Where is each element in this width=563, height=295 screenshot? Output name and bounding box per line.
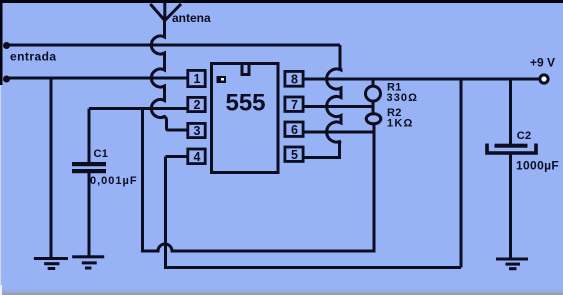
IC 555 body [212, 64, 279, 173]
wire R2 bottom vertical x=374 [373, 124, 376, 253]
svg-text:antena: antena [172, 11, 211, 25]
wire A y=251 with hop over x=165 [141, 244, 374, 251]
svg-text:3: 3 [194, 124, 201, 138]
wire C1 tap y=108.5 [89, 107, 187, 110]
wire pin7 y=106.5 [305, 105, 374, 108]
wire pin4 down x=165.5 [164, 157, 167, 268]
pin boxes left [188, 70, 205, 163]
svg-text:555: 555 [225, 90, 265, 117]
pin 7 box [285, 97, 303, 111]
ground A (x=51) [34, 257, 68, 270]
pin numbers [194, 72, 299, 164]
node dot entrada bottom [5, 77, 9, 81]
resistor R2 ellipse [366, 114, 381, 124]
wire C2 lead top x=510.5 [509, 79, 512, 144]
svg-text:5: 5 [291, 148, 298, 162]
svg-text:1KΩ: 1KΩ [387, 118, 413, 130]
ground C2 (x=511) [496, 258, 528, 271]
ground B (x=89) [72, 255, 104, 269]
svg-text:6: 6 [291, 123, 298, 137]
pin 3 box [188, 123, 205, 137]
svg-text:+9 V: +9 V [530, 56, 555, 70]
wire entrada top y=45 [5, 44, 340, 47]
pin 2 box [188, 97, 205, 111]
wire right vertical x=461 [460, 79, 463, 268]
pin 5 box [285, 147, 303, 161]
IC notch [242, 64, 249, 75]
pin 8 box [285, 71, 303, 86]
top border [0, 0, 563, 3]
svg-text:8: 8 [291, 73, 298, 87]
capacitor C1 plates [72, 162, 106, 173]
resistor R1 stub top [372, 81, 375, 87]
terminal +9V circle [540, 75, 548, 83]
svg-text:7: 7 [291, 98, 298, 112]
pin 4 box [188, 149, 205, 164]
pin 1 box [188, 70, 205, 86]
svg-text:2: 2 [194, 98, 201, 112]
svg-text:entrada: entrada [10, 50, 57, 64]
wire C1 to ground [88, 173, 91, 257]
wire +9V rail y=79 [305, 78, 540, 81]
wire C1 branch down [88, 109, 91, 163]
left border [0, 0, 3, 85]
wire pin6 y=132 [305, 131, 375, 134]
resistor R1 circle [366, 86, 381, 101]
svg-text:1: 1 [194, 72, 201, 86]
wire x=142.5 down [141, 109, 144, 253]
wire R1-R2 stub [372, 102, 375, 114]
wire ground branch x=51 [50, 78, 53, 258]
svg-text:C2: C2 [517, 130, 532, 142]
svg-text:C1: C1 [94, 148, 109, 160]
bottom gray strip [0, 290, 563, 293]
inductor L2 [327, 45, 341, 156]
node dot entrada top [5, 44, 9, 48]
svg-text:1000µF: 1000µF [516, 159, 559, 173]
pin 6 box [285, 122, 303, 136]
wire entrada bottom y=78 [5, 77, 187, 80]
inductor L1 [151, 21, 187, 131]
wire pin4 left y=156.5 [166, 155, 188, 158]
wire bottom y=268.5 [164, 266, 461, 269]
pin boxes right [285, 71, 303, 161]
wire pin5 y=157.5 [305, 156, 342, 159]
svg-text:4: 4 [194, 150, 201, 164]
svg-text:0,001µF: 0,001µF [90, 175, 138, 187]
wire pin5 up x=339.5 [338, 142, 341, 158]
svg-text:330Ω: 330Ω [387, 92, 419, 104]
capacitor C2 [487, 144, 536, 154]
wire C2 lead bottom [509, 154, 512, 258]
IC pin1 dot [217, 76, 227, 83]
antenna [150, 2, 181, 21]
